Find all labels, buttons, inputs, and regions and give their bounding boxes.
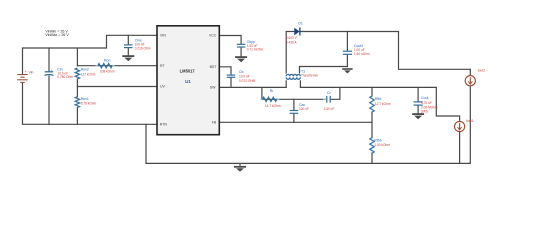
svg-text:0.760 Ohm: 0.760 Ohm	[57, 75, 73, 79]
svg-text:3.30 nF: 3.30 nF	[324, 107, 335, 111]
svg-text:100 nF: 100 nF	[299, 107, 309, 111]
svg-text:Iout1: Iout1	[466, 119, 474, 123]
svg-text:127 kOhm: 127 kOhm	[81, 72, 96, 76]
svg-text:6.76 kOhm: 6.76 kOhm	[81, 101, 97, 105]
svg-text:UV: UV	[160, 85, 166, 89]
svg-text:VCC: VCC	[209, 33, 217, 37]
svg-text:Vin: Vin	[29, 71, 34, 75]
svg-text:LM5017: LM5017	[180, 69, 196, 74]
svg-text:1.00 kOhm: 1.00 kOhm	[374, 143, 390, 147]
svg-text:SW: SW	[210, 86, 216, 90]
svg-text:(6M): (6M)	[421, 110, 428, 114]
svg-text:Rfbb: Rfbb	[374, 138, 381, 142]
svg-text:12.7 kOhm: 12.7 kOhm	[375, 102, 391, 106]
svg-text:VinMax = 26 V: VinMax = 26 V	[45, 33, 69, 37]
svg-text:1.50 uOhm: 1.50 uOhm	[354, 52, 370, 56]
svg-text:0.600 V: 0.600 V	[286, 36, 298, 40]
svg-text:BST: BST	[210, 65, 218, 69]
svg-text:Cout: Cout	[421, 96, 428, 100]
svg-text:VIN: VIN	[160, 33, 166, 37]
svg-text:0.216 Ohm: 0.216 Ohm	[135, 46, 151, 50]
svg-text:FB: FB	[212, 121, 217, 125]
svg-text:+: +	[51, 68, 53, 72]
svg-text:0.072 OHM: 0.072 OHM	[239, 79, 256, 83]
svg-text:Transformer: Transformer	[301, 73, 319, 77]
svg-text:Ruv2: Ruv2	[81, 68, 89, 72]
svg-text:+: +	[25, 70, 27, 74]
svg-text:0.71 mOhm: 0.71 mOhm	[247, 48, 264, 52]
svg-text:U1: U1	[185, 79, 191, 84]
svg-text:Rfbt: Rfbt	[375, 97, 381, 101]
svg-text:D1: D1	[298, 21, 303, 25]
svg-text:4.70 uF: 4.70 uF	[421, 101, 432, 105]
svg-text:Cb: Cb	[239, 70, 244, 74]
svg-text:0.430 A: 0.430 A	[286, 40, 298, 44]
svg-text:Iout2: Iout2	[478, 68, 486, 72]
svg-text:14.7 kOhm: 14.7 kOhm	[265, 104, 281, 108]
svg-text:Ruv1: Ruv1	[81, 97, 89, 101]
svg-text:Ron: Ron	[104, 59, 110, 63]
svg-text:RTN: RTN	[160, 122, 168, 126]
svg-text:208 kOhm: 208 kOhm	[100, 70, 115, 74]
